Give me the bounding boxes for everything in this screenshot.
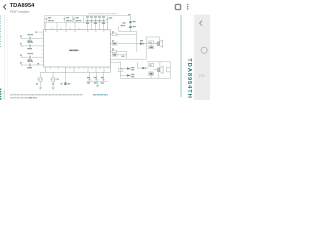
- capacitor C7 input series: [21, 45, 44, 46]
- capacitor C15 C16 pair with ground: [38, 72, 43, 88]
- ground: [96, 81, 99, 87]
- diode D2: [127, 67, 130, 70]
- figure caption note 2: [10, 97, 37, 98]
- capacitor C3 group: [73, 17, 75, 23]
- capacitor C2 group: [63, 17, 65, 23]
- capacitor bank C20-C22 bottom with bus: [86, 72, 108, 81]
- diode D1: [140, 42, 143, 45]
- wire pin drop 3: [65, 22, 67, 29]
- ferrite bead L3: [110, 50, 126, 52]
- connector X1: [166, 67, 170, 72]
- node label pin bottom-left: [37, 63, 39, 64]
- capacitor C9: [107, 17, 109, 23]
- capacitor C17 C18 pair with ground: [50, 72, 55, 88]
- capacitor C2 input series: [21, 57, 44, 58]
- wire output node vertical: [136, 32, 138, 52]
- node label VSSP: [121, 56, 124, 57]
- capacitor bank C4-C8 top decoupling: [86, 18, 108, 29]
- wire riser B: [83, 16, 85, 23]
- wire channel2 lower rail: [121, 62, 171, 79]
- wire top supply rail: [44, 16, 130, 30]
- ground: [39, 88, 42, 90]
- wire pin drop 1: [45, 22, 47, 29]
- resistor R3 snubber: [149, 41, 154, 44]
- wire riser A: [72, 16, 74, 23]
- header icon: overflow menu dots: [187, 4, 189, 6]
- ground: [52, 88, 55, 90]
- inductor L2 output filter: [110, 42, 137, 45]
- back chevron: [4, 4, 6, 9]
- diode D4: [142, 67, 145, 70]
- wire channel2 output: [110, 62, 120, 78]
- capacitor C13 snubber: [149, 44, 154, 49]
- node label pin1: [35, 32, 37, 33]
- wire channel1 lower rail: [110, 37, 159, 59]
- op-amp U1 : TDA8954 IC body: [44, 30, 111, 67]
- ferrite bead L1: [110, 33, 137, 35]
- diode D3: [127, 74, 130, 77]
- IC pin stubs: [42, 28, 108, 70]
- inductor L4: [112, 51, 126, 59]
- viewer nav chevron (right strip): [200, 21, 203, 26]
- wire pin drop 4: [74, 22, 76, 29]
- resistor R7 on output2 line: [119, 68, 123, 71]
- faint datasheet page header text: [88, 13, 117, 14]
- figure caption note 1: [10, 94, 108, 95]
- previous page vertical teal text (clipped at left, top): [0, 16, 2, 48]
- svg-text:TDA8954TH: TDA8954TH: [186, 58, 192, 99]
- viewer page circle indicator: [201, 47, 207, 53]
- capacitor C19 electrolytic: [64, 72, 66, 82]
- app header title: [10, 3, 35, 9]
- viewer tick marks: [200, 74, 204, 77]
- previous page vertical teal text (clipped, bottom): [0, 89, 1, 100]
- wire bottom bus: [40, 67, 110, 72]
- capacitor C3 input series: [21, 64, 44, 65]
- capacitor C10 boost pair: [119, 16, 137, 32]
- wire top bus: [44, 21, 107, 23]
- loudspeaker LS1: [154, 40, 163, 48]
- header icon: pages square: [175, 4, 180, 9]
- resistor R4 snubber2: [149, 63, 154, 66]
- wire pin drop 2: [56, 22, 58, 29]
- datasheet vertical rule (right): [180, 15, 182, 97]
- viewer grey background right of page: [194, 15, 210, 101]
- capacitor C14 snubber2: [149, 72, 154, 76]
- capacitor C1 group: [45, 17, 47, 23]
- loudspeaker LS2: [154, 66, 163, 74]
- page gap lines (previous/current page edges): [4, 15, 6, 100]
- pin numbers top edge: [45, 31, 104, 32]
- IC centre label TDA8954: [69, 50, 78, 52]
- wire pin1 stub: [39, 31, 44, 33]
- capacitor C6 input series: [21, 38, 44, 39]
